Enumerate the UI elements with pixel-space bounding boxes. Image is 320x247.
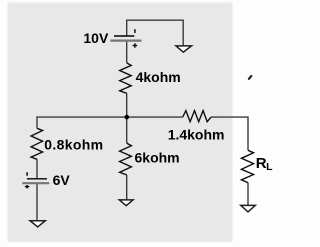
- svg-text:6V: 6V: [53, 172, 71, 188]
- svg-text:4kohm: 4kohm: [136, 69, 181, 85]
- svg-text:6kohm: 6kohm: [135, 149, 180, 165]
- svg-text:L: L: [266, 161, 273, 173]
- svg-text:0.8kohm: 0.8kohm: [44, 137, 103, 153]
- svg-text:10V: 10V: [83, 30, 109, 46]
- svg-text:1.4kohm: 1.4kohm: [168, 126, 225, 142]
